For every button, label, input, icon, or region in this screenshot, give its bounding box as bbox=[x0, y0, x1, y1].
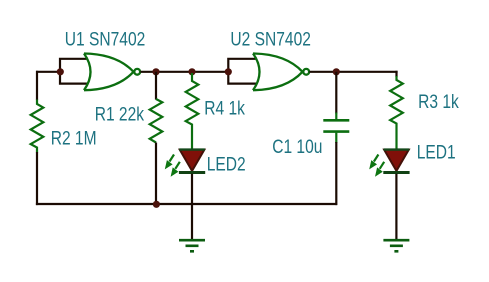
wire C1 top lead bbox=[335, 72, 337, 114]
LED LED1 arrows bbox=[369, 160, 383, 177]
capacitor C1 bbox=[323, 113, 349, 144]
resistor R1 bbox=[150, 99, 163, 143]
wire C1 bottom lead bbox=[335, 142, 337, 205]
wire left rail upper vertical bbox=[36, 71, 38, 100]
node R1 bottom junction bbox=[153, 201, 160, 208]
wire U1 output to U2 input bbox=[140, 71, 229, 73]
op-amp U2 NOR gate SN7402 bbox=[253, 54, 309, 91]
svg-text:R1 22k: R1 22k bbox=[95, 103, 145, 125]
svg-text:LED2: LED2 bbox=[207, 153, 246, 175]
svg-text:C1 10u: C1 10u bbox=[272, 135, 322, 157]
wire R1 bottom lead bbox=[155, 143, 157, 205]
LED LED2 arrows bbox=[165, 160, 179, 177]
svg-text:R3 1k: R3 1k bbox=[418, 90, 459, 112]
ground below LED2 bbox=[179, 240, 205, 251]
resistor R3 bbox=[390, 76, 403, 150]
resistor R2 bbox=[31, 100, 44, 153]
wire LED1 cathode down bbox=[395, 174, 397, 240]
LED LED1 bbox=[383, 150, 409, 173]
wire U2 output to R3 corner bbox=[309, 71, 397, 73]
wire U1 input bracket bbox=[60, 59, 88, 84]
node U1 input junction bbox=[57, 68, 64, 75]
node U2 input junction bbox=[225, 68, 232, 75]
svg-text:R2 1M: R2 1M bbox=[51, 127, 97, 149]
node R4 top junction bbox=[188, 68, 195, 75]
svg-text:LED1: LED1 bbox=[417, 141, 456, 163]
svg-text:U1 SN7402: U1 SN7402 bbox=[65, 28, 145, 50]
svg-text:R4 1k: R4 1k bbox=[204, 97, 245, 119]
LED LED2 bbox=[179, 150, 205, 173]
ground below LED1 bbox=[383, 240, 409, 251]
svg-text:U2 SN7402: U2 SN7402 bbox=[230, 28, 310, 50]
node C1 junction bbox=[333, 68, 340, 75]
wire left feed horizontal bbox=[36, 71, 61, 73]
node U1 output junction bbox=[152, 68, 159, 75]
wire R3 corner vertical bbox=[395, 71, 397, 77]
wire bottom rail bbox=[36, 203, 337, 205]
wire LED2 cathode down bbox=[191, 174, 193, 240]
resistor R4 bbox=[186, 73, 199, 150]
wire left rail lower vertical bbox=[36, 152, 38, 205]
wire R1 top lead bbox=[155, 72, 157, 100]
wire U2 input bracket bbox=[228, 59, 257, 84]
op-amp U1 NOR gate SN7402 bbox=[84, 54, 140, 91]
